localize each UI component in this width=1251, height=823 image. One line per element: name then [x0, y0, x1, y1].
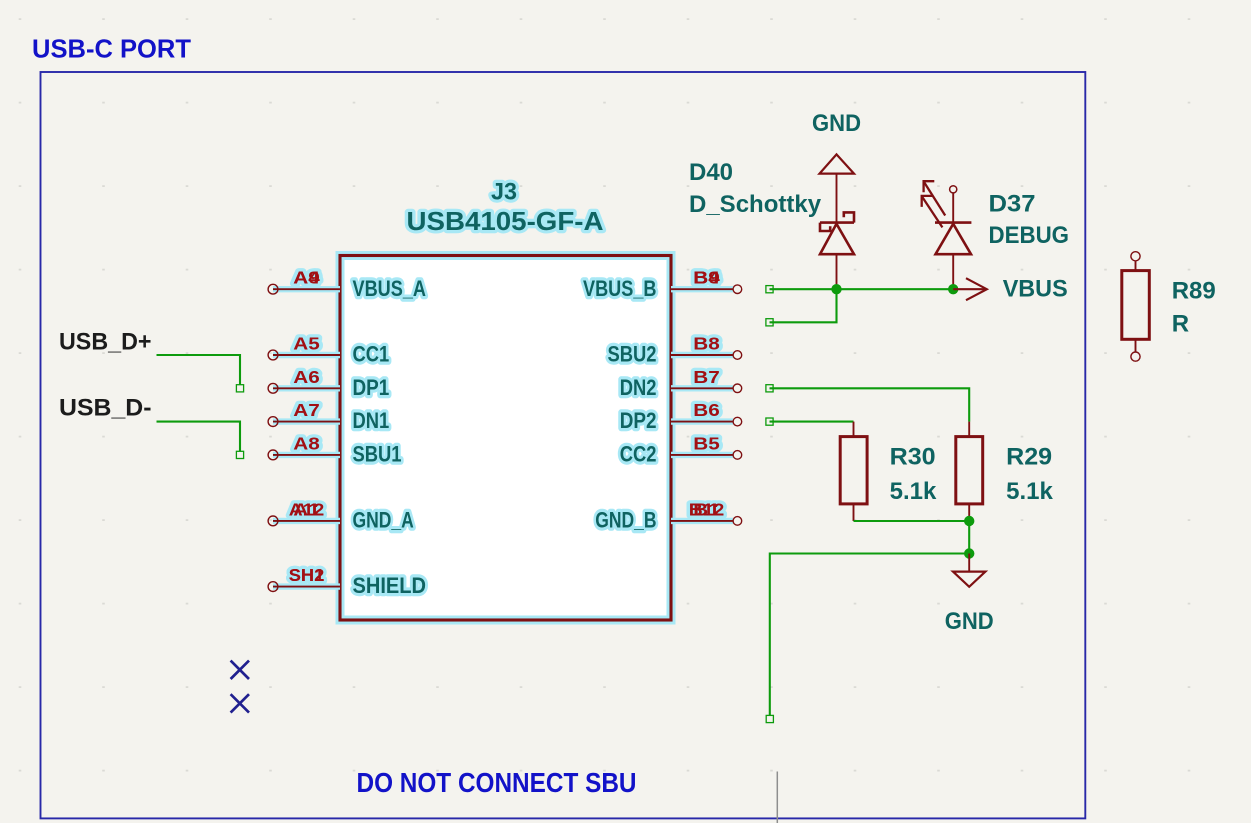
- resistor R89: [1122, 252, 1150, 362]
- svg-text:A12: A12: [289, 499, 325, 519]
- svg-text:R89: R89: [1172, 277, 1216, 304]
- svg-text:D37: D37: [989, 191, 1036, 218]
- svg-text:USB_D+: USB_D+: [59, 328, 152, 355]
- svg-text:USB-C PORT: USB-C PORT: [32, 34, 191, 64]
- svg-text:D_Schottky: D_Schottky: [689, 191, 822, 218]
- svg-text:GND_A: GND_A: [353, 508, 414, 533]
- power symbol GND (top): [812, 110, 861, 223]
- svg-text:A8: A8: [293, 433, 320, 453]
- wire L-shape joining VBUS: [770, 289, 837, 322]
- junction dot: [964, 548, 974, 558]
- svg-text:R30: R30: [890, 444, 936, 471]
- svg-text:CC1: CC1: [353, 342, 390, 367]
- pin A4/A9 VBUS_A: [268, 268, 426, 301]
- svg-text:DN2: DN2: [620, 375, 657, 400]
- unconnected wire end square (VBUS_B pin row): [766, 286, 773, 293]
- svg-text:DEBUG: DEBUG: [989, 222, 1070, 249]
- unconnected wire end square: [766, 715, 773, 722]
- wire DP2 (B6) to R30: [770, 421, 854, 423]
- pin B8 SBU2: [608, 334, 742, 367]
- pin A7 DN1: [268, 400, 389, 433]
- svg-text:USB_D-: USB_D-: [59, 395, 152, 422]
- svg-text:GND: GND: [945, 608, 994, 635]
- wire junction down: [968, 521, 970, 554]
- svg-text:A6: A6: [293, 367, 320, 387]
- svg-text:5.1k: 5.1k: [1006, 478, 1053, 505]
- svg-text:B8: B8: [693, 334, 720, 354]
- wire left and down to unconnected end: [770, 554, 969, 716]
- wire DN2 (B7) to R29: [770, 388, 970, 421]
- diode D40 D_Schottky: [820, 212, 854, 289]
- svg-text:DN1: DN1: [353, 408, 390, 433]
- pin B1/B12 GND_B: [595, 499, 741, 532]
- wire VBUS horizontal: [770, 288, 954, 290]
- svg-text:DO NOT CONNECT SBU: DO NOT CONNECT SBU: [357, 767, 637, 798]
- svg-text:B6: B6: [693, 400, 720, 420]
- svg-text:DP1: DP1: [353, 375, 390, 400]
- connector symbol J3 body (USB4105-GF-A): [340, 256, 671, 621]
- resistor R29: [956, 422, 983, 521]
- pin A6 DP1: [268, 367, 389, 400]
- no-connect cross: [231, 661, 249, 679]
- pin B6 DP2: [620, 400, 742, 433]
- svg-text:GND: GND: [812, 110, 861, 137]
- unconnected wire end square: [236, 385, 243, 392]
- wire from USB_D+ label: [157, 355, 241, 385]
- junction dot: [964, 516, 974, 526]
- svg-text:DP2: DP2: [620, 408, 657, 433]
- svg-text:5.1k: 5.1k: [890, 478, 937, 505]
- pin B5 CC2: [620, 433, 742, 466]
- svg-text:USB4105-GF-A: USB4105-GF-A: [407, 206, 604, 236]
- svg-text:SH2: SH2: [289, 565, 325, 585]
- power symbol GND (bottom): [945, 554, 994, 636]
- pin SH1/SH2 SHIELD: [268, 565, 426, 598]
- svg-text:SHIELD: SHIELD: [353, 573, 427, 598]
- svg-text:B7: B7: [693, 367, 720, 387]
- svg-text:R: R: [1172, 311, 1189, 338]
- svg-text:J3: J3: [491, 179, 517, 206]
- LED D37 DEBUG: [922, 181, 972, 289]
- junction dot: [948, 284, 958, 294]
- svg-text:A9: A9: [293, 268, 320, 288]
- svg-text:SBU1: SBU1: [353, 442, 402, 467]
- pin A1/A12 GND_A: [268, 499, 414, 532]
- svg-text:SBU2: SBU2: [608, 342, 657, 367]
- svg-text:B9: B9: [693, 268, 720, 288]
- pin A5 CC1: [268, 334, 389, 367]
- svg-text:GND_B: GND_B: [595, 508, 656, 533]
- unconnected wire end square: [766, 418, 773, 425]
- svg-text:D40: D40: [689, 159, 733, 186]
- hierarchical label VBUS (input arrow): [953, 276, 1067, 303]
- svg-text:CC2: CC2: [620, 442, 657, 467]
- svg-text:B5: B5: [693, 433, 720, 453]
- svg-text:R29: R29: [1006, 444, 1052, 471]
- svg-text:A5: A5: [293, 334, 320, 354]
- pin B4/B9 VBUS_B: [583, 268, 742, 301]
- unconnected wire end square: [766, 319, 773, 326]
- junction dot: [831, 284, 841, 294]
- pin A8 SBU1: [268, 433, 401, 466]
- svg-text:B12: B12: [689, 499, 725, 519]
- svg-text:VBUS: VBUS: [1003, 276, 1068, 303]
- svg-text:VBUS_A: VBUS_A: [353, 276, 427, 301]
- svg-text:VBUS_B: VBUS_B: [583, 276, 657, 301]
- resistor R30: [840, 422, 867, 521]
- svg-text:A7: A7: [293, 400, 320, 420]
- wire from USB_D- label: [157, 422, 241, 452]
- no-connect cross: [231, 694, 249, 712]
- unconnected wire end square: [766, 385, 773, 392]
- unconnected wire end square: [236, 451, 243, 458]
- pin B7 DN2: [620, 367, 742, 400]
- cursor crosshair line: [776, 772, 778, 823]
- wire R30 bottom to junction: [854, 520, 970, 522]
- graphic frame box: [41, 72, 1086, 818]
